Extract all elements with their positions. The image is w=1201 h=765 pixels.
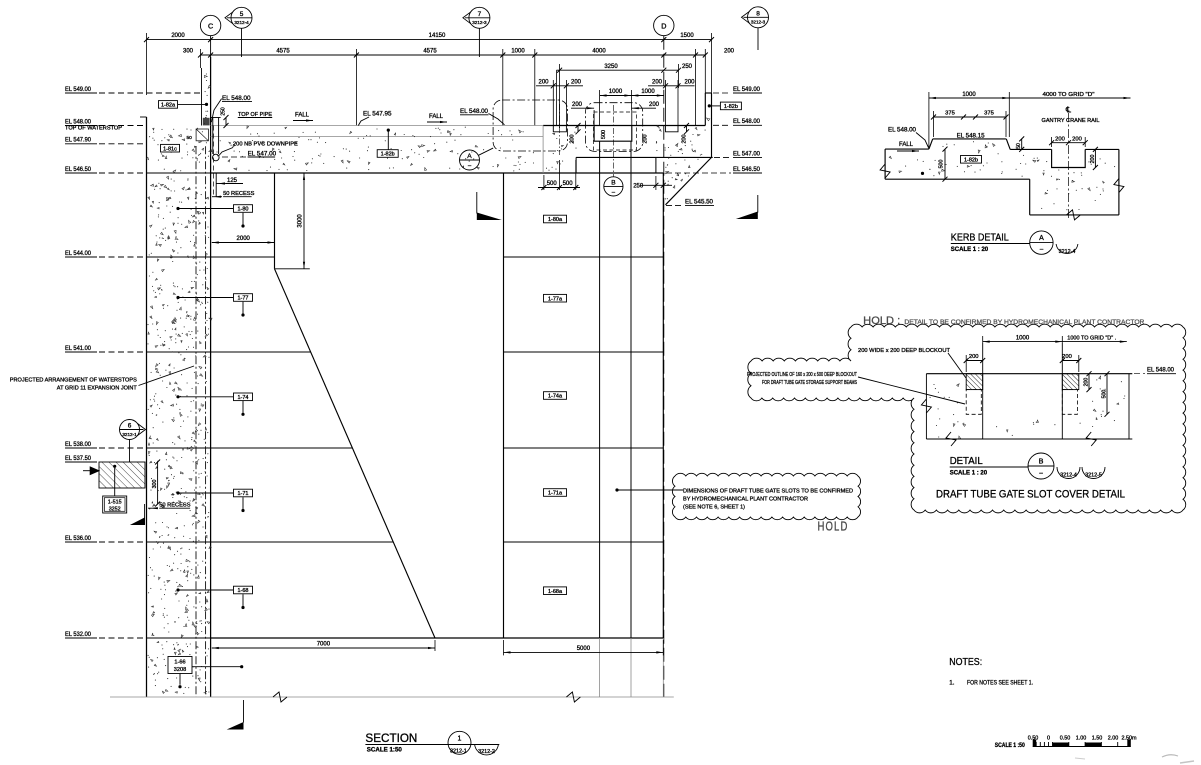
svg-text:200: 200	[682, 135, 688, 144]
svg-text:−: −	[1039, 247, 1043, 254]
svg-text:A: A	[467, 153, 472, 160]
svg-text:1: 1	[458, 736, 462, 743]
svg-text:50: 50	[186, 135, 192, 141]
svg-text:1-80a: 1-80a	[548, 217, 563, 223]
svg-text:SCALE 1:50: SCALE 1:50	[367, 747, 403, 754]
svg-text:5000: 5000	[577, 646, 591, 652]
svg-text:14150: 14150	[429, 33, 446, 39]
svg-text:200: 200	[724, 49, 735, 55]
svg-text:6: 6	[128, 423, 132, 430]
svg-text:1-77a: 1-77a	[548, 296, 563, 302]
svg-text:7000: 7000	[317, 642, 331, 648]
svg-text:SCALE 1 :50: SCALE 1 :50	[995, 742, 1025, 749]
svg-text:3212-4: 3212-4	[1060, 473, 1077, 479]
svg-text:DETAIL TO BE CONFIRMED BY HYDR: DETAIL TO BE CONFIRMED BY HYDROMECHANICA…	[904, 319, 1144, 326]
svg-text:B: B	[611, 180, 616, 187]
svg-text:3252: 3252	[109, 507, 121, 513]
svg-text:EL 548.15: EL 548.15	[957, 132, 986, 139]
svg-text:7: 7	[478, 11, 482, 18]
svg-text:200: 200	[570, 135, 576, 144]
svg-text:375: 375	[945, 111, 955, 117]
svg-text:TOP OF WATERSTOP: TOP OF WATERSTOP	[65, 126, 122, 132]
svg-text:℄: ℄	[1065, 106, 1072, 115]
svg-text:3212-3: 3212-3	[751, 20, 766, 25]
svg-text:500: 500	[1101, 390, 1107, 399]
svg-text:1-74: 1-74	[237, 395, 248, 401]
svg-text:1-82b: 1-82b	[381, 152, 395, 158]
svg-text:EL 546.50: EL 546.50	[733, 166, 760, 173]
svg-text:DETAIL: DETAIL	[950, 456, 983, 467]
svg-text:200: 200	[1072, 136, 1082, 142]
svg-text:1.00: 1.00	[1076, 736, 1087, 742]
svg-text:1000: 1000	[609, 89, 623, 95]
svg-text:1000: 1000	[962, 92, 976, 98]
svg-text:EL 545.50: EL 545.50	[685, 198, 713, 205]
svg-text:1-77: 1-77	[237, 296, 248, 302]
svg-text:HOLD :: HOLD :	[863, 315, 900, 327]
svg-text:FALL: FALL	[899, 142, 914, 148]
svg-text:3208: 3208	[174, 667, 186, 673]
svg-text:1.50: 1.50	[1092, 736, 1103, 742]
svg-text:8: 8	[756, 11, 760, 18]
svg-text:200 NB PVC DOWNPIPE: 200 NB PVC DOWNPIPE	[233, 142, 298, 148]
svg-text:250: 250	[633, 183, 644, 189]
svg-text:EL 532.00: EL 532.00	[65, 631, 91, 638]
svg-text:1-71: 1-71	[237, 491, 248, 497]
svg-text:PROJECTED OUTLINE OF 160 x 200: PROJECTED OUTLINE OF 160 x 200 x 500 DEE…	[747, 372, 857, 378]
svg-text:200: 200	[969, 354, 979, 360]
svg-text:SCALE 1 : 20: SCALE 1 : 20	[951, 247, 989, 253]
svg-text:GANTRY CRANE RAIL: GANTRY CRANE RAIL	[1042, 118, 1101, 124]
svg-text:FOR NOTES SEE SHEET 1.: FOR NOTES SEE SHEET 1.	[967, 680, 1033, 687]
svg-text:300: 300	[183, 49, 194, 55]
svg-text:EL 547.00: EL 547.00	[248, 150, 277, 157]
svg-text:EL 544.00: EL 544.00	[65, 250, 91, 257]
svg-text:1.: 1.	[949, 680, 955, 687]
svg-text:3212-1: 3212-1	[122, 432, 137, 437]
svg-text:C: C	[208, 21, 213, 30]
svg-text:0.50: 0.50	[1028, 736, 1039, 742]
svg-text:1-81c: 1-81c	[163, 146, 177, 152]
svg-text:1-515: 1-515	[108, 500, 122, 506]
svg-text:BY HYDROMECHANICAL PLANT CONT: BY HYDROMECHANICAL PLANT CONTRACTOR	[683, 497, 808, 503]
svg-text:375: 375	[984, 111, 994, 117]
svg-text:1-82a: 1-82a	[161, 103, 176, 109]
svg-text:SECTION: SECTION	[365, 731, 417, 745]
svg-text:EL 547.90: EL 547.90	[65, 137, 91, 144]
svg-text:FALL: FALL	[295, 113, 310, 119]
svg-text:HOLD: HOLD	[818, 520, 849, 534]
svg-text:1-66: 1-66	[174, 660, 185, 666]
svg-text:200: 200	[684, 79, 695, 85]
svg-text:1000 TO GRID "D" .: 1000 TO GRID "D" .	[1067, 336, 1116, 342]
svg-text:FALL: FALL	[429, 114, 444, 120]
svg-text:EL 547.00: EL 547.00	[733, 151, 760, 158]
svg-text:1-82b: 1-82b	[964, 158, 978, 164]
svg-text:3212-3: 3212-3	[472, 20, 487, 25]
svg-text:1-68: 1-68	[237, 588, 248, 594]
svg-text:1-68a: 1-68a	[548, 589, 563, 595]
svg-text:1-71a: 1-71a	[548, 491, 563, 497]
svg-text:0: 0	[1047, 736, 1050, 742]
svg-text:KERB DETAIL: KERB DETAIL	[951, 233, 1009, 244]
svg-text:FOR DRAFT TUBE GATE STORAGE SU: FOR DRAFT TUBE GATE STORAGE SUPPORT BEAM…	[762, 380, 857, 386]
svg-text:D: D	[661, 21, 666, 30]
svg-text:200: 200	[1055, 136, 1065, 142]
svg-text:500: 500	[547, 181, 558, 187]
svg-text:DIMENSIONS OF DRAFT TUBE GATE: DIMENSIONS OF DRAFT TUBE GATE SLOTS TO B…	[683, 489, 853, 495]
svg-text:200: 200	[1083, 378, 1089, 387]
svg-text:EL 546.50: EL 546.50	[65, 166, 91, 173]
svg-text:(SEE NOTE 6, SHEET 1): (SEE NOTE 6, SHEET 1)	[683, 505, 745, 511]
svg-text:NOTES:: NOTES:	[949, 657, 982, 668]
svg-text:250: 250	[221, 107, 227, 116]
svg-text:EL 541.00: EL 541.00	[65, 345, 91, 352]
svg-text:2.00: 2.00	[1108, 736, 1119, 742]
svg-text:4000: 4000	[592, 49, 606, 55]
svg-text:200: 200	[538, 79, 549, 85]
svg-text:5: 5	[240, 11, 244, 18]
svg-text:200: 200	[571, 79, 582, 85]
svg-text:2.50m: 2.50m	[1122, 736, 1137, 742]
svg-text:1000: 1000	[1016, 336, 1030, 342]
svg-text:4575: 4575	[276, 49, 290, 55]
svg-text:4000 TO GRID "D": 4000 TO GRID "D"	[1043, 92, 1095, 98]
svg-text:DRAFT TUBE GATE SLOT COVER DET: DRAFT TUBE GATE SLOT COVER DETAIL	[936, 489, 1125, 501]
svg-text:3250: 3250	[604, 64, 618, 70]
svg-text:−: −	[611, 190, 615, 197]
svg-text:200: 200	[1090, 155, 1096, 164]
svg-text:3212-1: 3212-1	[450, 749, 467, 755]
svg-text:500: 500	[563, 181, 574, 187]
svg-text:50: 50	[1016, 143, 1022, 149]
svg-text:2000: 2000	[237, 236, 251, 242]
svg-text:1-82b: 1-82b	[724, 104, 738, 110]
svg-text:500: 500	[939, 160, 945, 169]
svg-text:4575: 4575	[423, 49, 437, 55]
svg-text:AT GRID 11 EXPANSION JOINT: AT GRID 11 EXPANSION JOINT	[57, 386, 137, 392]
svg-text:0.50: 0.50	[1060, 736, 1071, 742]
svg-text:1000: 1000	[641, 89, 655, 95]
svg-text:EL 549.00: EL 549.00	[65, 86, 91, 93]
svg-text:−: −	[468, 163, 472, 170]
svg-text:1500: 1500	[680, 33, 694, 39]
svg-text:200: 200	[652, 79, 663, 85]
svg-text:50 RECESS: 50 RECESS	[159, 503, 191, 509]
svg-text:200 WIDE x 200 DEEP BLOCKOUT: 200 WIDE x 200 DEEP BLOCKOUT	[858, 348, 950, 354]
svg-text:1-74a: 1-74a	[548, 394, 563, 400]
svg-text:PROJECTED ARRANGEMENT OF WATER: PROJECTED ARRANGEMENT OF WATERSTOPS	[10, 378, 137, 384]
svg-text:3212-2: 3212-2	[478, 749, 495, 755]
svg-text:200: 200	[572, 102, 583, 108]
svg-text:EL 548.00: EL 548.00	[65, 118, 91, 125]
svg-text:300: 300	[152, 480, 158, 489]
svg-text:1-80: 1-80	[237, 207, 248, 213]
svg-text:3212-4: 3212-4	[1059, 249, 1076, 255]
svg-text:3212-5: 3212-5	[1085, 473, 1102, 479]
svg-text:EL 548.00: EL 548.00	[733, 118, 760, 125]
svg-text:EL 548.00: EL 548.00	[888, 126, 917, 133]
svg-text:EL 549.00: EL 549.00	[733, 86, 760, 93]
svg-text:EL 547.95: EL 547.95	[363, 111, 392, 118]
svg-text:200: 200	[643, 135, 649, 144]
svg-text:EL 548.00: EL 548.00	[1147, 367, 1175, 374]
svg-text:3000: 3000	[298, 214, 304, 228]
svg-text:200: 200	[649, 102, 660, 108]
svg-text:B: B	[1039, 457, 1044, 466]
svg-text:EL 536.00: EL 536.00	[65, 535, 91, 542]
svg-text:−: −	[1039, 469, 1043, 478]
svg-text:EL 548.00: EL 548.00	[460, 108, 488, 115]
svg-text:200: 200	[1062, 354, 1072, 360]
svg-text:EL 538.00: EL 538.00	[65, 441, 91, 448]
svg-text:3212-4: 3212-4	[234, 20, 249, 25]
svg-text:EL 537.50: EL 537.50	[65, 455, 91, 462]
svg-text:250: 250	[682, 64, 693, 70]
svg-text:500: 500	[601, 130, 607, 139]
svg-text:SCALE 1 : 20: SCALE 1 : 20	[950, 470, 988, 476]
svg-text:2000: 2000	[171, 33, 185, 39]
svg-text:A: A	[1039, 235, 1044, 242]
svg-text:1000: 1000	[511, 49, 525, 55]
